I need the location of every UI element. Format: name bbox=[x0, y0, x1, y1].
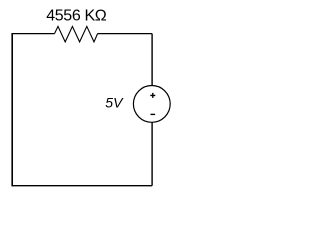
wire left segment bbox=[11, 33, 13, 186]
voltage source plus sign bbox=[150, 93, 155, 98]
resistor R1 zigzag bbox=[55, 26, 98, 42]
circuit schematic: resistor + voltage source loop bbox=[0, 0, 176, 200]
wire bottom segment bbox=[12, 185, 153, 187]
svg-text:5V: 5V bbox=[105, 95, 124, 111]
wire right lower segment bbox=[151, 122, 153, 186]
svg-text:4556 KΩ: 4556 KΩ bbox=[46, 8, 107, 25]
voltage source minus sign bbox=[151, 113, 156, 115]
voltage source V1 circle bbox=[133, 86, 170, 123]
wire right upper segment bbox=[151, 34, 153, 86]
wire top-right segment bbox=[98, 33, 153, 35]
wire top-left segment bbox=[12, 33, 55, 35]
